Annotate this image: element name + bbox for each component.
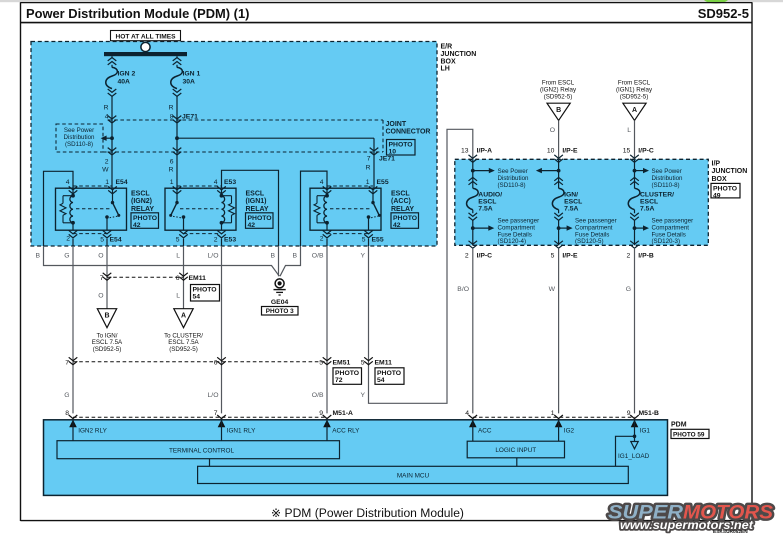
svg-text:1: 1	[366, 179, 370, 186]
JE71 pin 6	[173, 148, 182, 151]
svg-text:ACC: ACC	[478, 428, 492, 435]
relay K2 ESCL (IGN1) RELAY	[165, 188, 236, 230]
svg-text:2: 2	[465, 252, 469, 259]
svg-text:IGN/: IGN/	[564, 191, 578, 198]
svg-text:72: 72	[335, 377, 343, 384]
svg-text:E53: E53	[224, 179, 236, 186]
wire O to I/P-E	[558, 120, 560, 159]
svg-text:42: 42	[248, 222, 256, 229]
svg-text:See passenger: See passenger	[652, 218, 694, 225]
supermotors logo	[608, 501, 773, 535]
PDM input arrow IG1	[630, 415, 639, 419]
svg-text:PHOTO: PHOTO	[133, 215, 157, 222]
connector EM11 photo ref	[191, 285, 220, 302]
svg-text:I/P-C: I/P-C	[477, 252, 493, 259]
svg-text:7.5A: 7.5A	[640, 205, 654, 212]
svg-text:PHOTO: PHOTO	[193, 287, 217, 294]
svg-text:PHOTO 59: PHOTO 59	[673, 431, 705, 438]
wire B bracket relay K3 coil	[301, 171, 328, 246]
wire W	[558, 249, 560, 413]
svg-text:5: 5	[551, 252, 555, 259]
svg-text:L/O: L/O	[208, 253, 219, 260]
svg-text:9: 9	[319, 410, 323, 417]
svg-text:ESCL: ESCL	[391, 191, 410, 198]
svg-text:ESCL: ESCL	[564, 198, 582, 205]
svg-text:13: 13	[461, 148, 469, 155]
svg-text:4: 4	[320, 179, 324, 186]
svg-text:5: 5	[176, 237, 180, 244]
wire O	[106, 239, 108, 246]
svg-text:O: O	[98, 253, 103, 260]
I/P junction box (blue)	[455, 159, 709, 245]
svg-text:(IGN2): (IGN2)	[131, 198, 152, 205]
svg-text:ESCL: ESCL	[478, 198, 496, 205]
svg-text:49: 49	[713, 193, 721, 200]
svg-text:I/P-E: I/P-E	[562, 252, 578, 259]
svg-text:ESCL: ESCL	[640, 198, 658, 205]
svg-text:B: B	[270, 253, 275, 260]
svg-text:LOGIC INPUT: LOGIC INPUT	[495, 447, 536, 454]
svg-text:6: 6	[176, 275, 180, 282]
connector M51-B	[473, 416, 635, 418]
PDM input arrow IG2	[554, 415, 563, 419]
svg-text:7.5A: 7.5A	[564, 205, 578, 212]
svg-text:2: 2	[320, 236, 324, 243]
wire B relay K3 to ground	[280, 246, 301, 276]
svg-text:7: 7	[214, 410, 218, 417]
svg-text:From ESCL: From ESCL	[618, 79, 651, 86]
fuse IGN 2 40A	[111, 56, 113, 58]
svg-text:(SD120-5): (SD120-5)	[575, 238, 604, 245]
svg-text:R: R	[104, 105, 109, 112]
connector M51-A	[73, 416, 327, 418]
wire IG1 to MAIN MCU	[616, 420, 635, 466]
svg-text:I/P-C: I/P-C	[638, 148, 654, 155]
wire col1 JE71 segment	[111, 120, 113, 188]
bus bar	[104, 52, 187, 56]
svg-text:(SD952-5): (SD952-5)	[93, 346, 122, 353]
svg-text:EM51: EM51	[333, 360, 351, 367]
svg-text:(SD110-8): (SD110-8)	[652, 182, 680, 189]
svg-text:1: 1	[551, 410, 555, 417]
svg-text:B: B	[292, 253, 297, 260]
svg-text:JOINT: JOINT	[386, 121, 407, 128]
svg-text:(SD952-5): (SD952-5)	[620, 93, 649, 100]
wire B/O	[472, 249, 474, 413]
svg-text:B: B	[35, 253, 40, 260]
svg-text:EM11: EM11	[375, 360, 393, 367]
svg-text:GE04: GE04	[271, 299, 289, 306]
wire B run to ground	[44, 246, 280, 276]
svg-text:(SD110-8): (SD110-8)	[498, 182, 526, 189]
svg-text:4: 4	[66, 179, 70, 186]
svg-text:O/B: O/B	[312, 253, 324, 260]
svg-text:(SD110-8): (SD110-8)	[65, 141, 93, 148]
svg-text:EM11: EM11	[189, 275, 207, 282]
svg-text:A: A	[181, 312, 186, 319]
outer frame	[20, 2, 22, 521]
fuse IGN 1 30A	[176, 56, 178, 58]
svg-text:M51-B: M51-B	[639, 410, 659, 417]
svg-text:See Power: See Power	[498, 168, 528, 175]
svg-text:E54: E54	[116, 179, 128, 186]
node IG1_LOAD	[631, 442, 638, 449]
node junction col1	[110, 136, 114, 140]
see power distribution note (E/R)	[56, 124, 103, 152]
wire L to I/P-C	[634, 120, 636, 159]
wire stub IGN1 RLY	[221, 420, 223, 441]
block TERMINAL CONTROL	[57, 441, 340, 459]
svg-text:MAIN MCU: MAIN MCU	[397, 473, 430, 480]
PDM module box (blue)	[44, 420, 668, 496]
svg-text:B/O: B/O	[457, 286, 469, 293]
svg-text:E55: E55	[372, 237, 384, 244]
svg-text:B: B	[556, 107, 561, 114]
svg-text:6: 6	[214, 360, 218, 367]
top grey screen edge	[0, 0, 783, 2]
block LOGIC INPUT	[467, 441, 564, 458]
JE71 pin 7	[370, 148, 379, 151]
svg-text:PHOTO: PHOTO	[393, 215, 417, 222]
svg-text:ESCL: ESCL	[246, 191, 265, 198]
ground GE04 photo ref	[262, 307, 299, 316]
svg-text:4: 4	[214, 179, 218, 186]
wire G	[72, 239, 74, 246]
svg-text:G: G	[626, 286, 631, 293]
svg-text:(SD952-5): (SD952-5)	[169, 346, 198, 353]
wire TERMINAL CONTROL to MAIN MCU	[209, 459, 211, 467]
svg-text:R: R	[169, 167, 174, 174]
svg-text:AUDIO/: AUDIO/	[478, 191, 502, 198]
svg-text:7: 7	[65, 360, 69, 367]
svg-text:BOX: BOX	[441, 58, 457, 65]
wire L/O	[221, 239, 223, 246]
svg-text:10: 10	[547, 148, 555, 155]
svg-text:CLUSTER/: CLUSTER/	[640, 191, 674, 198]
svg-text:PHOTO: PHOTO	[377, 370, 401, 377]
svg-text:7: 7	[367, 156, 371, 163]
feed terminal circle	[141, 42, 150, 51]
PDM input arrow ACC	[469, 415, 478, 419]
svg-text:W: W	[549, 286, 556, 293]
wire O/B	[326, 239, 328, 246]
svg-text:40A: 40A	[118, 78, 131, 85]
svg-text:R: R	[366, 165, 371, 172]
svg-text:E55: E55	[377, 179, 389, 186]
wire L	[183, 239, 185, 246]
svg-text:From ESCL: From ESCL	[542, 79, 575, 86]
svg-text:Distribution: Distribution	[652, 175, 684, 182]
svg-text:R: R	[169, 105, 174, 112]
svg-text:See passenger: See passenger	[498, 218, 540, 225]
svg-text:7.5A: 7.5A	[478, 205, 492, 212]
svg-text:L: L	[176, 293, 180, 300]
svg-text:I/P-A: I/P-A	[477, 148, 493, 155]
PDM input arrow IGN2 RLY	[69, 415, 78, 419]
svg-text:15: 15	[623, 148, 631, 155]
svg-text:7: 7	[100, 275, 104, 282]
svg-text:JE71: JE71	[182, 114, 198, 121]
svg-text:9: 9	[627, 410, 631, 417]
svg-text:O: O	[550, 127, 555, 134]
svg-text:TERMINAL CONTROL: TERMINAL CONTROL	[169, 447, 235, 454]
svg-text:Distribution: Distribution	[498, 175, 530, 182]
svg-text:42: 42	[133, 222, 141, 229]
PDM input arrow IGN1 RLY	[217, 415, 226, 419]
svg-text:JE71: JE71	[379, 156, 395, 163]
svg-text:1: 1	[170, 179, 174, 186]
svg-text:42: 42	[393, 222, 401, 229]
svg-text:RELAY: RELAY	[131, 206, 154, 213]
connector EM51 photo ref	[333, 368, 362, 385]
svg-text:G: G	[64, 392, 69, 399]
svg-text:A: A	[632, 107, 637, 114]
svg-text:I/P-B: I/P-B	[638, 252, 654, 259]
svg-text:L/O: L/O	[208, 392, 219, 399]
svg-text:See passenger: See passenger	[575, 218, 617, 225]
svg-text:RELAY: RELAY	[391, 206, 414, 213]
svg-text:5: 5	[361, 360, 365, 367]
svg-text:I/P: I/P	[712, 161, 721, 168]
wire B relay K2 to ground	[278, 246, 280, 276]
connector EM11 pin 5	[364, 357, 373, 360]
JE71 pin 2	[108, 148, 117, 151]
svg-text:Distribution: Distribution	[64, 134, 96, 141]
svg-text:E/R: E/R	[441, 44, 453, 51]
svg-text:2: 2	[66, 236, 70, 243]
svg-text:SD952-5: SD952-5	[698, 6, 749, 21]
svg-text:IGN 1: IGN 1	[183, 70, 201, 77]
svg-text:O/B: O/B	[312, 392, 324, 399]
svg-text:(ACC): (ACC)	[391, 198, 411, 205]
svg-text:CONNECTOR: CONNECTOR	[386, 129, 431, 136]
ground GE04	[275, 279, 284, 288]
svg-text:IG2: IG2	[564, 428, 575, 435]
svg-text:PHOTO: PHOTO	[335, 370, 359, 377]
svg-text:See Power: See Power	[652, 168, 682, 175]
svg-text:IG1: IG1	[640, 428, 651, 435]
svg-text:(SD952-5): (SD952-5)	[544, 93, 573, 100]
svg-text:PHOTO 3: PHOTO 3	[266, 308, 294, 315]
svg-text:IGN1 RLY: IGN1 RLY	[227, 428, 256, 435]
svg-text:30A: 30A	[183, 78, 196, 85]
wire stub ACC	[472, 420, 474, 441]
svg-text:W: W	[102, 167, 109, 174]
svg-text:6: 6	[170, 159, 174, 166]
svg-text:Power Distribution Module (PDM: Power Distribution Module (PDM) (1)	[26, 6, 249, 21]
svg-text:BOX: BOX	[712, 176, 728, 183]
svg-text:4: 4	[465, 410, 469, 417]
svg-text:PHOTO: PHOTO	[389, 142, 413, 149]
node junction col2 + branch wire to JE71 pin 7	[175, 136, 179, 140]
svg-text:L: L	[627, 127, 631, 134]
svg-text:2: 2	[105, 159, 109, 166]
joint connector JE71 dashed outline	[108, 119, 383, 121]
svg-text:B: B	[104, 312, 109, 319]
wire LOGIC INPUT to MAIN MCU	[516, 458, 518, 467]
svg-text:8: 8	[65, 410, 69, 417]
E/R junction box (blue)	[31, 42, 437, 247]
svg-text:IG1_LOAD: IG1_LOAD	[618, 453, 650, 460]
svg-text:5: 5	[362, 237, 366, 244]
svg-text:JUNCTION: JUNCTION	[441, 51, 477, 58]
svg-text:RELAY: RELAY	[246, 206, 269, 213]
svg-text:ESCL: ESCL	[131, 191, 150, 198]
svg-text:See Power: See Power	[64, 127, 94, 134]
svg-text:PDM: PDM	[671, 421, 687, 428]
svg-text:O: O	[98, 293, 103, 300]
svg-text:1: 1	[105, 179, 109, 186]
svg-text:E53: E53	[224, 237, 236, 244]
svg-text:2: 2	[214, 237, 218, 244]
svg-text:Y: Y	[360, 392, 365, 399]
relay K1 ESCL (IGN2) RELAY	[56, 188, 127, 230]
svg-text:(SD120-3): (SD120-3)	[652, 238, 681, 245]
svg-text:M51-A: M51-A	[333, 410, 353, 417]
svg-text:2: 2	[627, 252, 631, 259]
svg-text:(IGN2) Relay: (IGN2) Relay	[540, 86, 577, 93]
wire stub IG2	[558, 420, 560, 441]
PDM input arrow ACC RLY	[323, 415, 332, 419]
svg-text:ESKSUR052EN: ESKSUR052EN	[713, 529, 748, 535]
wire Y	[368, 239, 370, 246]
svg-text:PHOTO: PHOTO	[248, 215, 272, 222]
svg-text:E54: E54	[110, 237, 122, 244]
svg-text:PHOTO: PHOTO	[713, 185, 737, 192]
svg-text:5: 5	[100, 237, 104, 244]
wire B bracket relay K1 coil	[44, 171, 74, 246]
wire col2 JE71 segment	[176, 120, 178, 188]
svg-text:LH: LH	[441, 66, 450, 73]
connector EM11 pin5 photo ref	[375, 368, 404, 385]
svg-text:(IGN1): (IGN1)	[246, 198, 267, 205]
svg-text:ACC RLY: ACC RLY	[332, 428, 360, 435]
svg-text:JUNCTION: JUNCTION	[712, 168, 748, 175]
connector triangle B to IGN/ESCL	[97, 309, 116, 328]
svg-text:I/P-E: I/P-E	[562, 148, 578, 155]
wire B bracket relay K2 coil	[222, 170, 279, 246]
connector EM51 pins 7-6-5	[73, 361, 327, 363]
relay K3 ESCL (ACC) RELAY	[310, 188, 381, 230]
svg-text:54: 54	[193, 294, 201, 301]
svg-text:5: 5	[319, 360, 323, 367]
connector triangle A to CLUSTER/ESCL	[174, 309, 193, 328]
block MAIN MCU	[198, 466, 629, 483]
svg-text:※ PDM (Power Distribution Modu: ※ PDM (Power Distribution Module)	[271, 506, 464, 520]
svg-text:IGN2 RLY: IGN2 RLY	[78, 428, 107, 435]
svg-text:(SD120-4): (SD120-4)	[498, 238, 527, 245]
svg-text:(IGN1) Relay: (IGN1) Relay	[616, 86, 653, 93]
connector EM11 pins 7-6	[107, 276, 184, 278]
svg-text:IGN 2: IGN 2	[118, 70, 136, 77]
svg-text:L: L	[176, 253, 180, 260]
svg-text:G: G	[64, 253, 69, 260]
wire stub ACC RLY	[326, 420, 328, 441]
svg-text:54: 54	[377, 377, 385, 384]
green UI artifact top edge	[704, 0, 729, 4]
svg-text:HOT AT ALL TIMES: HOT AT ALL TIMES	[115, 33, 176, 40]
wire stub IGN2 RLY	[72, 420, 74, 441]
wire G IG1	[634, 249, 636, 413]
node HOT AT ALL TIMES	[111, 31, 181, 41]
svg-text:Y: Y	[360, 253, 365, 260]
